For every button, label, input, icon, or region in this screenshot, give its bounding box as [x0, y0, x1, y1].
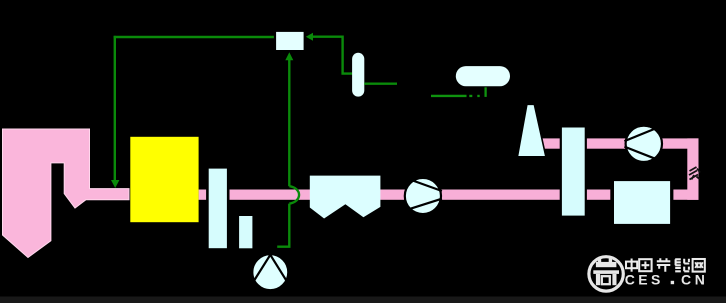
ESP precipitator (W-bottom) — [310, 176, 381, 219]
tall damper bar 1 — [207, 167, 228, 249]
green riser lower part + L to pump — [277, 204, 289, 247]
green line: top horizontal to control box — [114, 36, 275, 38]
vertical capsule (sensor) — [352, 53, 364, 97]
green hop over pipe — [289, 186, 299, 203]
green riser from pump up to box — [288, 60, 290, 187]
booster fan 2 — [624, 126, 662, 162]
green line from capsule right — [364, 82, 397, 84]
watermark text 中国节能网 (stroke approximation) — [626, 258, 705, 271]
bottom gray strip — [0, 297, 726, 303]
green line from capsule to box — [312, 37, 352, 74]
black char strokes on pink corner (watermark fragment) — [689, 167, 700, 180]
pipe corner vertical (right) — [687, 138, 698, 199]
upper clean gas pipe — [541, 138, 699, 148]
induced draft fan 1 — [405, 178, 442, 214]
green arrowhead into duct — [111, 180, 119, 188]
watermark text CES.CN — [625, 271, 709, 287]
chimney stack — [517, 104, 546, 157]
air preheater (yellow box) — [130, 137, 198, 222]
watermark logo circle — [589, 257, 623, 291]
circulation pump — [252, 254, 288, 290]
oxidation tank (bottom right box) — [613, 180, 671, 225]
boiler furnace (pink) — [3, 129, 130, 258]
green arrowhead into box right — [306, 33, 313, 41]
svg-text:CN: CN — [681, 271, 708, 287]
svg-text:CES: CES — [625, 271, 664, 287]
main flue gas duct (lower pipe) — [199, 190, 611, 200]
green line: vertical drop to boiler outlet — [114, 36, 116, 184]
control box (top) — [275, 31, 305, 51]
green arrowhead up into box bottom — [285, 52, 293, 60]
green dashed control line — [431, 95, 467, 97]
short damper bar 2 — [239, 216, 252, 248]
horizontal capsule (tank) — [456, 66, 510, 86]
absorber tower bar (right) — [561, 126, 586, 216]
lower pipe right stub — [673, 190, 698, 200]
